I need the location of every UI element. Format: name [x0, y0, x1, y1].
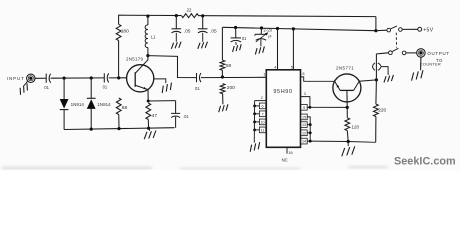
svg-text:6: 6: [262, 104, 264, 108]
svg-text:15: 15: [302, 115, 306, 119]
svg-text:1N914: 1N914: [71, 102, 85, 107]
svg-text:2N5771: 2N5771: [336, 65, 354, 70]
svg-text:200: 200: [227, 85, 235, 91]
svg-text:INPUT: INPUT: [7, 76, 25, 81]
svg-text:pF: pF: [268, 35, 272, 39]
svg-text:.05: .05: [210, 29, 217, 35]
svg-text:13: 13: [302, 123, 306, 127]
svg-text:14: 14: [302, 140, 306, 144]
svg-text:11: 11: [261, 128, 265, 132]
svg-text:2-20: 2-20: [263, 28, 272, 33]
svg-text:10: 10: [260, 120, 264, 124]
svg-text:01: 01: [44, 85, 49, 90]
svg-text:SeekIC.com: SeekIC.com: [394, 156, 456, 168]
svg-text:220: 220: [378, 107, 386, 113]
svg-text:01: 01: [242, 36, 247, 41]
svg-text:3: 3: [304, 91, 306, 96]
svg-text:9: 9: [303, 106, 305, 110]
svg-text:12: 12: [302, 131, 306, 135]
svg-text:OUTPUT: OUTPUT: [427, 51, 449, 56]
svg-text:.05: .05: [184, 28, 191, 34]
svg-text:47: 47: [152, 113, 158, 119]
svg-text:01: 01: [103, 85, 108, 90]
svg-text:NC: NC: [282, 158, 288, 163]
svg-text:8: 8: [302, 71, 304, 76]
svg-text:95H90: 95H90: [273, 89, 292, 95]
svg-text:68: 68: [122, 105, 128, 111]
svg-text:+5V: +5V: [423, 27, 434, 33]
svg-text:2N5179: 2N5179: [126, 56, 143, 61]
svg-text:16: 16: [288, 150, 292, 155]
svg-text:L1: L1: [151, 34, 156, 39]
svg-text:120: 120: [352, 125, 360, 130]
svg-text:68: 68: [226, 63, 232, 69]
svg-text:180: 180: [121, 28, 129, 34]
svg-text:2: 2: [261, 95, 263, 100]
svg-text:1N914: 1N914: [97, 102, 111, 107]
svg-text:COUNTER: COUNTER: [420, 62, 441, 67]
svg-text:7: 7: [262, 112, 264, 116]
svg-text:22: 22: [187, 7, 192, 12]
svg-text:.01: .01: [183, 114, 189, 119]
svg-text:01: 01: [195, 86, 200, 91]
